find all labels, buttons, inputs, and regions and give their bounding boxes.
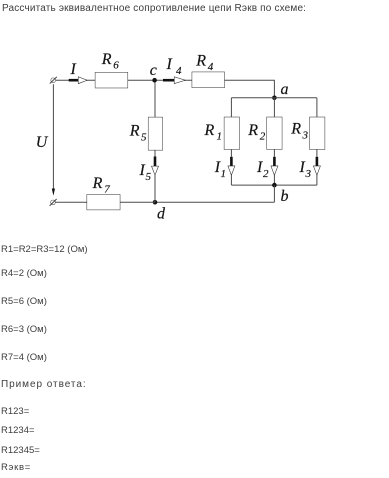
svg-text:R: R xyxy=(129,123,140,140)
terminal bottom-left xyxy=(50,199,57,206)
resistor R6 xyxy=(95,73,127,88)
current arrow I2 xyxy=(271,149,277,185)
svg-text:I: I xyxy=(299,159,306,176)
wire node b down to bottom bus xyxy=(273,185,275,202)
svg-text:I: I xyxy=(166,56,173,73)
svg-text:U: U xyxy=(36,134,49,151)
wire bottom bus from b to node d xyxy=(155,201,274,203)
wire drop to R3 xyxy=(316,98,318,118)
svg-text:4: 4 xyxy=(208,61,214,73)
label R2 xyxy=(247,122,266,143)
terminal top-left xyxy=(50,77,57,84)
current arrow I4 xyxy=(163,77,184,83)
svg-text:c: c xyxy=(150,62,157,79)
svg-text:b: b xyxy=(281,188,289,205)
svg-text:1: 1 xyxy=(217,131,223,143)
svg-text:1: 1 xyxy=(221,168,227,180)
node b xyxy=(272,183,277,188)
label I3 xyxy=(299,159,312,180)
resistor R7 xyxy=(87,195,120,210)
label I2 xyxy=(256,159,269,180)
resistor R4 xyxy=(192,72,224,87)
bus bottom of parallel group xyxy=(231,184,317,186)
label R7 xyxy=(92,175,111,196)
resistor R2 xyxy=(267,117,282,149)
label I4 xyxy=(166,56,183,77)
svg-text:3: 3 xyxy=(305,168,312,180)
wire left branch with U arrow xyxy=(52,84,55,196)
label R3 xyxy=(290,121,308,142)
wire R4 to corner and down to node a xyxy=(224,80,274,98)
wire R6 to R4 xyxy=(128,79,193,81)
resistor R5 xyxy=(149,117,163,149)
svg-text:I: I xyxy=(256,159,263,176)
current arrow I1 xyxy=(228,149,234,185)
svg-text:R: R xyxy=(290,121,301,138)
svg-text:R: R xyxy=(247,122,258,139)
resistor R1 xyxy=(224,117,239,149)
node a xyxy=(272,96,277,101)
svg-text:I: I xyxy=(139,162,146,179)
wire R7 to terminal bottom xyxy=(56,201,88,203)
label I5 xyxy=(139,162,152,183)
svg-text:2: 2 xyxy=(263,168,269,180)
label I1 xyxy=(214,159,226,180)
wire node d to R7 xyxy=(120,201,155,203)
current arrow I xyxy=(69,77,87,83)
svg-text:R: R xyxy=(92,175,103,192)
label R5 xyxy=(129,123,147,144)
svg-text:5: 5 xyxy=(141,132,147,144)
svg-text:6: 6 xyxy=(113,60,119,72)
resistor R3 xyxy=(310,117,325,149)
current arrow I5 xyxy=(152,150,158,202)
wire branch from node c down to R5 xyxy=(154,82,156,117)
svg-text:R: R xyxy=(195,53,206,70)
wire drop to R1 xyxy=(230,98,232,118)
node d xyxy=(153,200,158,205)
wire drop to R2 xyxy=(273,98,275,118)
label R4 xyxy=(195,53,214,74)
wire top from terminal to R6 xyxy=(56,79,96,81)
node c xyxy=(152,78,157,83)
label R1 xyxy=(204,122,223,143)
svg-text:R: R xyxy=(204,122,215,139)
svg-text:7: 7 xyxy=(104,184,110,196)
current arrow I3 xyxy=(314,149,320,185)
bus at node a xyxy=(231,97,317,99)
svg-text:R: R xyxy=(101,51,112,68)
svg-text:3: 3 xyxy=(302,130,309,142)
svg-text:5: 5 xyxy=(146,171,152,183)
svg-text:I: I xyxy=(70,61,77,78)
svg-text:2: 2 xyxy=(260,131,266,143)
label R6 xyxy=(101,51,119,72)
svg-text:4: 4 xyxy=(176,65,182,77)
svg-text:d: d xyxy=(157,205,166,222)
svg-text:a: a xyxy=(281,81,289,98)
